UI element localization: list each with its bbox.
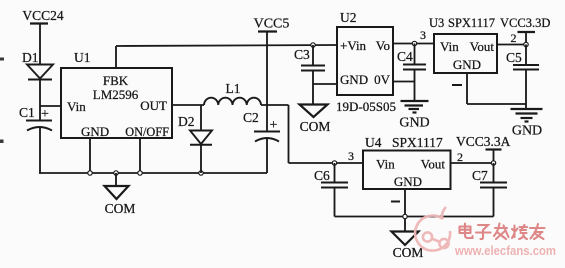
ground GND under C4 bbox=[399, 101, 429, 131]
svg-text:D1: D1 bbox=[22, 50, 39, 65]
svg-text:C7: C7 bbox=[472, 168, 488, 183]
svg-text:3: 3 bbox=[420, 28, 426, 42]
wire U4 Vout to VCC3.3A bbox=[451, 162, 494, 164]
junction on bus at D2 bbox=[199, 171, 203, 175]
wire VCC5 vertical bbox=[266, 32, 268, 132]
op-amp U3 SPX1117 bbox=[429, 16, 497, 73]
capacitor C6 bbox=[314, 163, 348, 217]
svg-text:COM: COM bbox=[393, 245, 424, 260]
svg-text:ON/OFF: ON/OFF bbox=[125, 125, 169, 139]
svg-text:VCC5: VCC5 bbox=[254, 17, 290, 32]
svg-text:GND: GND bbox=[453, 57, 481, 72]
svg-text:0V: 0V bbox=[374, 72, 391, 87]
svg-text:COM: COM bbox=[300, 119, 331, 134]
svg-text:Vout: Vout bbox=[470, 39, 495, 54]
wire C2 to bus bbox=[266, 138, 268, 173]
svg-text:Vout: Vout bbox=[421, 157, 446, 172]
wire bottom COM bus bbox=[335, 216, 494, 218]
svg-text:2: 2 bbox=[457, 150, 463, 164]
watermark logo bbox=[415, 207, 450, 251]
svg-text:OUT: OUT bbox=[140, 98, 167, 113]
wire D2 cathode to bus bbox=[200, 145, 202, 173]
svg-text:GND: GND bbox=[340, 72, 368, 87]
wire to U4 Vin bbox=[289, 162, 364, 164]
svg-text:C1: C1 bbox=[19, 105, 35, 120]
svg-text:U1: U1 bbox=[74, 50, 91, 65]
wire FBK to VCC5 to U2 +Vin bbox=[116, 45, 337, 46]
wire U3 GND to C5 ground bbox=[467, 103, 526, 105]
node VCC3.3D bbox=[500, 16, 550, 47]
wire U3 GND pin down bbox=[466, 73, 468, 104]
svg-text:FBK: FBK bbox=[103, 73, 129, 88]
svg-text:D2: D2 bbox=[178, 114, 195, 129]
wire branch down to U4 row bbox=[288, 105, 290, 163]
svg-text:SPX1117: SPX1117 bbox=[392, 135, 443, 150]
wire C1 to ground bus bbox=[39, 127, 41, 173]
wire L1 to VCC5 node and branch corner bbox=[261, 104, 289, 106]
ground COM under C3 bbox=[300, 105, 331, 135]
diode D2 bbox=[178, 114, 212, 145]
svg-text:Vo: Vo bbox=[376, 38, 390, 53]
capacitor C2 bbox=[243, 110, 280, 142]
svg-text:COM: COM bbox=[105, 201, 136, 216]
junction C6 tap bbox=[332, 161, 336, 165]
capacitor C7 bbox=[472, 163, 507, 217]
svg-text:Vin: Vin bbox=[440, 39, 459, 54]
wire COM bus under U1 bbox=[39, 172, 267, 174]
capacitor C1 bbox=[19, 105, 52, 131]
wire COM stub under U1 bbox=[115, 173, 117, 186]
wire FBK pin up bbox=[115, 46, 117, 68]
svg-text:19D-05S05: 19D-05S05 bbox=[336, 99, 396, 114]
svg-text:VCC3.3A: VCC3.3A bbox=[456, 134, 511, 149]
svg-text:SPX1117: SPX1117 bbox=[448, 16, 495, 30]
svg-text:VCC3.3D: VCC3.3D bbox=[500, 16, 550, 30]
wire Vin pin of U1 bbox=[40, 105, 61, 107]
wire U4 GND pin down bbox=[404, 189, 406, 232]
node VCC24 bbox=[22, 8, 64, 24]
capacitor C5 bbox=[506, 45, 539, 110]
svg-text:2: 2 bbox=[511, 31, 517, 45]
svg-text:L1: L1 bbox=[226, 81, 241, 96]
svg-text:Vin: Vin bbox=[376, 157, 395, 172]
svg-text:C2: C2 bbox=[243, 110, 259, 125]
svg-text:U4: U4 bbox=[365, 135, 382, 150]
wire D2 top bbox=[200, 105, 202, 131]
svg-text:3: 3 bbox=[348, 149, 354, 163]
transistor U2 19D-05S05 bbox=[336, 10, 396, 114]
svg-text:GND: GND bbox=[394, 174, 422, 189]
svg-text:U2: U2 bbox=[340, 10, 357, 25]
wire VCC24 to D1 anode bbox=[39, 24, 41, 65]
svg-text:C3: C3 bbox=[294, 47, 310, 62]
wire U1 OUT pin to L1 bbox=[172, 104, 204, 106]
svg-text:www.elecfans.com: www.elecfans.com bbox=[454, 243, 556, 258]
svg-text:GND: GND bbox=[512, 124, 542, 139]
wire U1 ON/OFF pin down bbox=[139, 138, 141, 173]
svg-text:C4: C4 bbox=[397, 49, 413, 64]
junction on bus at COM stub bbox=[114, 171, 118, 175]
capacitor C4 bbox=[397, 41, 426, 101]
junction C7 tap bbox=[491, 161, 495, 165]
junction on bus at ON/OFF pin bbox=[138, 171, 142, 175]
junction bottom bus at COM bbox=[403, 214, 407, 218]
node VCC5 bbox=[254, 17, 290, 32]
svg-text:C6: C6 bbox=[314, 168, 330, 183]
ground COM under U1 bbox=[105, 186, 136, 216]
wire U2 GND pin to C3 bbox=[313, 83, 337, 85]
svg-text:C5: C5 bbox=[506, 50, 522, 65]
wire U2 0V pin to C4 bbox=[393, 81, 415, 83]
ground COM bottom bbox=[392, 232, 424, 261]
svg-text:GND: GND bbox=[81, 124, 109, 139]
svg-text:+Vin: +Vin bbox=[340, 38, 367, 53]
junction on bus at GND pin bbox=[88, 171, 92, 175]
op-amp U4 SPX1117 bbox=[363, 135, 451, 189]
wire U2 Vo to U3 Vin bbox=[393, 43, 434, 45]
scan mark left edge 1 bbox=[0, 58, 4, 61]
wire D1 cathode to C1 bbox=[39, 80, 41, 121]
svg-text:U3: U3 bbox=[429, 16, 444, 30]
svg-text:GND: GND bbox=[399, 116, 429, 131]
svg-text:VCC24: VCC24 bbox=[22, 8, 64, 23]
node VCC3.3A bbox=[456, 134, 511, 163]
svg-text:LM2596: LM2596 bbox=[93, 87, 139, 102]
svg-text:Vin: Vin bbox=[67, 99, 86, 114]
minus label at U4 GND bbox=[391, 201, 400, 203]
capacitor C3 bbox=[294, 43, 325, 105]
wire U3 Vout to VCC3.3D bbox=[497, 44, 526, 46]
op-amp U1 LM2596 bbox=[61, 50, 172, 139]
inductor L1 bbox=[204, 81, 261, 105]
ground GND under C5 bbox=[511, 109, 543, 139]
diode D1 bbox=[22, 50, 53, 80]
scan mark left edge 2 bbox=[0, 140, 4, 144]
watermark text 电子发烧友 drawn as paths bbox=[460, 224, 545, 240]
minus label at U3 GND bbox=[452, 84, 462, 86]
wire U1 GND pin down bbox=[89, 138, 91, 173]
